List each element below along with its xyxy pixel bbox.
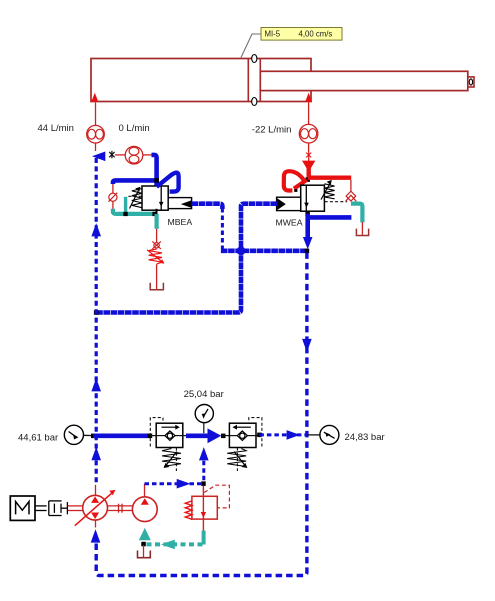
junction dot pilot supply: [201, 481, 206, 486]
MWEA bottom junction: [305, 211, 310, 216]
MWEA hose loop: [294, 180, 307, 189]
MBEA spring arrow: [130, 191, 139, 208]
wire FM1 down: [95, 143, 97, 151]
blue dashed charge line: [145, 482, 202, 485]
tank under P2: [138, 551, 151, 558]
wire cylinder left port down: [95, 103, 97, 126]
wire star to FM2: [115, 154, 126, 156]
valve MWEA body: [301, 185, 325, 211]
wire cylinder right port down: [308, 102, 310, 124]
coupling: [49, 501, 68, 516]
shaft P1-P2: [108, 505, 133, 507]
pilot dashed below compensator 1: [175, 448, 177, 471]
MWEA pilot box: [277, 197, 301, 210]
blue line MWEA bottom right: [308, 215, 352, 220]
thick dashed horizontal y250: [221, 249, 307, 254]
junction dot tank: [141, 542, 146, 547]
motor shaft: [35, 505, 47, 507]
orifice circle: [109, 193, 117, 201]
compensator valve 1: [150, 418, 186, 448]
compensator valve 2: [229, 418, 262, 448]
blue arrow left at junction: [92, 152, 105, 162]
label box MI-5: [261, 28, 342, 41]
star junction black: [109, 151, 114, 158]
star junction red: [306, 152, 311, 159]
flow meter FM1: [87, 125, 105, 143]
svg-text:4,00 cm/s: 4,00 cm/s: [299, 30, 333, 39]
rod end block: [468, 77, 474, 87]
pressure line to compensator 1: [93, 433, 150, 438]
gauge G2: [195, 405, 213, 434]
riser to MWEA and down to y312 rail: [96, 204, 277, 313]
junction blob: [237, 246, 246, 255]
port arrow left: [91, 93, 98, 102]
valve MBEA body: [142, 186, 168, 210]
teal dashed drain line: [147, 542, 204, 546]
svg-text:MBEA: MBEA: [168, 217, 193, 227]
teal drain MWEA: [351, 204, 363, 223]
svg-text:MI-5: MI-5: [265, 30, 281, 39]
MWEA spring arrow: [321, 184, 330, 200]
blue up arrow center: [199, 447, 209, 460]
main blue line MBEA to down-branch: [192, 204, 223, 209]
piston seal top: [252, 55, 257, 63]
tank right of MWEA: [356, 229, 368, 236]
pump stubs red: [95, 485, 97, 496]
cylinder barrel: [91, 59, 311, 102]
flow meter FM3: [299, 124, 318, 143]
blue horizontal to MBEA pilot branch: [113, 180, 157, 184]
left dashed pilot vertical: [95, 158, 98, 485]
dashed blue to right gauge: [257, 433, 262, 438]
MBEA orifice stub: [112, 184, 114, 193]
red line MWEA to check: [308, 175, 352, 179]
piston: [247, 59, 249, 102]
label leader line: [241, 34, 261, 58]
wire FM2 to riser: [143, 154, 154, 156]
teal riser to relief: [202, 531, 206, 545]
teal spring drain vertical: [124, 197, 127, 214]
pump P2 charge: [132, 497, 157, 522]
gauge G1: [64, 425, 83, 444]
tank under MBEA relief: [150, 283, 163, 290]
teal drop to relief: [155, 214, 159, 229]
junction dot MWEA top: [305, 177, 310, 182]
junction dot teal 1: [123, 212, 127, 216]
svg-text:25,04 bar: 25,04 bar: [184, 389, 224, 400]
wire G1 to junction: [83, 434, 93, 436]
port arrow right: [305, 93, 312, 102]
blue up arrow under P1: [91, 529, 101, 542]
pump P1 variable: [75, 490, 116, 526]
wire FM3 down: [308, 143, 310, 152]
MBEA pilot box: [168, 198, 191, 209]
teal drain corner MBEA: [113, 209, 157, 214]
svg-text:-22 L/min: -22 L/min: [252, 125, 292, 136]
red shaft to pump: [68, 505, 83, 507]
gauge G3: [320, 425, 339, 444]
svg-text:MWEA: MWEA: [276, 218, 303, 228]
blue riser corner from FM2: [152, 155, 157, 188]
junction dot riser: [154, 178, 159, 183]
MWEA spring: [324, 184, 334, 199]
black dashed pilot MWEA right: [325, 201, 348, 203]
junction dot teal 2: [152, 212, 156, 216]
dashed branch x222: [221, 208, 224, 249]
pump relief valve: [185, 485, 229, 531]
svg-text:24,83 bar: 24,83 bar: [345, 432, 385, 443]
spring below compensator 2: [227, 449, 247, 469]
right dashed pilot vertical + bottom loop: [96, 253, 307, 576]
black dashed pilot MBEA left: [127, 195, 142, 197]
svg-text:44,61 bar: 44,61 bar: [18, 433, 58, 444]
spring below compensator 1: [162, 449, 181, 469]
svg-text:0 L/min: 0 L/min: [119, 123, 150, 134]
relief under MBEA: [156, 229, 158, 243]
wire star to funnel: [308, 158, 310, 162]
svg-text:44 L/min: 44 L/min: [38, 123, 74, 134]
orifice lower stub: [112, 201, 114, 210]
red funnel arrow down: [302, 161, 315, 172]
check valve right of MWEA: [350, 180, 352, 192]
pilot dashed below compensator 2: [236, 448, 238, 471]
MBEA hose loop: [157, 173, 179, 192]
piston seal bottom: [252, 98, 257, 106]
center flow arrow: [186, 433, 208, 438]
junction dot y312: [94, 310, 99, 315]
MBEA spring: [132, 189, 142, 208]
cylinder rod: [260, 71, 468, 90]
motor box: [10, 496, 35, 520]
flow meter FM2: [125, 146, 143, 164]
teal up arrow under P2: [139, 528, 151, 540]
